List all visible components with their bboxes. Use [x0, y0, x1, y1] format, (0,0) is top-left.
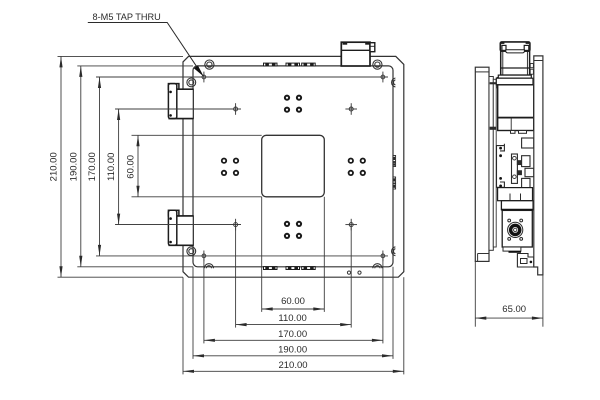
- svg-text:210.00: 210.00: [49, 152, 60, 181]
- svg-text:190.00: 190.00: [68, 152, 79, 181]
- svg-text:170.00: 170.00: [87, 152, 98, 181]
- svg-text:170.00: 170.00: [278, 329, 307, 340]
- svg-text:65.00: 65.00: [502, 304, 526, 315]
- svg-text:60.00: 60.00: [126, 155, 137, 179]
- svg-text:110.00: 110.00: [278, 313, 306, 324]
- svg-text:110.00: 110.00: [106, 153, 117, 181]
- svg-text:8-M5 TAP THRU: 8-M5 TAP THRU: [93, 12, 161, 22]
- svg-text:190.00: 190.00: [278, 344, 307, 355]
- svg-text:210.00: 210.00: [278, 360, 307, 371]
- svg-text:60.00: 60.00: [281, 296, 305, 307]
